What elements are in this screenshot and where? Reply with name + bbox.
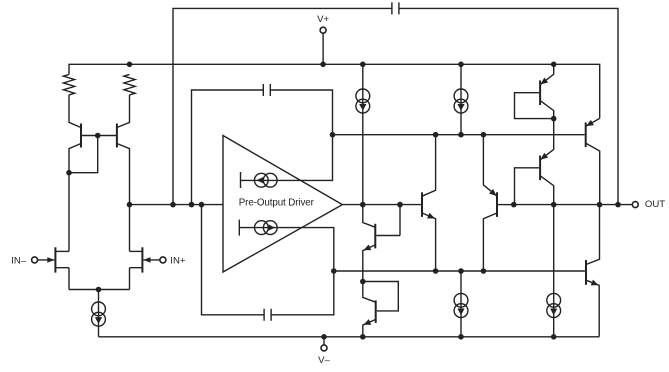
svg-text:V–: V– <box>318 355 330 366</box>
svg-text:V+: V+ <box>317 14 329 25</box>
svg-text:Pre-Output Driver: Pre-Output Driver <box>239 198 315 209</box>
svg-text:IN+: IN+ <box>170 255 186 266</box>
svg-text:IN–: IN– <box>11 255 27 266</box>
svg-text:OUT: OUT <box>645 199 665 210</box>
